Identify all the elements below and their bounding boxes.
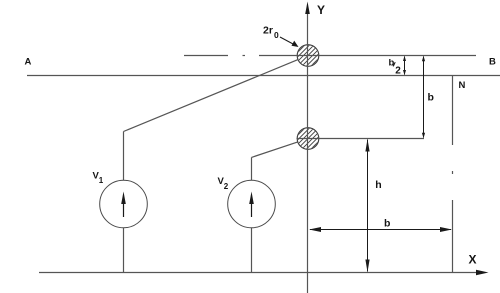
source V2	[218, 176, 276, 228]
wire W1 to V1	[124, 60, 299, 180]
boundary centerline N	[452, 76, 454, 273]
dimension b vertical	[422, 56, 434, 138]
dimension b/2	[389, 56, 407, 77]
svg-text:2r: 2r	[263, 25, 273, 37]
svg-text:X: X	[469, 253, 477, 267]
svg-text:N: N	[459, 80, 466, 91]
dimension b horizontal	[309, 217, 452, 232]
conductor W1	[292, 26, 324, 85]
dimension h	[365, 139, 381, 272]
centerline through conductor W1	[184, 55, 476, 57]
X axis	[39, 253, 489, 276]
source V1	[93, 171, 148, 228]
svg-text:b: b	[428, 92, 434, 104]
svg-text:B: B	[489, 57, 496, 68]
svg-text:2: 2	[395, 66, 401, 77]
svg-text:A: A	[25, 57, 32, 68]
svg-text:2: 2	[224, 182, 229, 191]
conductor W2	[292, 109, 324, 168]
svg-text:0: 0	[274, 30, 279, 40]
svg-text:1: 1	[99, 176, 104, 185]
svg-text:h: h	[375, 179, 381, 191]
svg-text:b: b	[389, 58, 395, 69]
svg-text:b: b	[384, 217, 390, 229]
wire V1 to ground plane	[123, 228, 125, 273]
label 2r0 with leader arrow	[263, 25, 299, 48]
wire W2 to V2	[252, 142, 298, 181]
wire W2 horizontal to dimension b	[297, 138, 425, 140]
Y axis	[305, 2, 325, 293]
wire interface line A-B	[27, 75, 500, 77]
wire V2 to ground plane	[251, 228, 253, 273]
svg-text:Y: Y	[317, 3, 325, 17]
